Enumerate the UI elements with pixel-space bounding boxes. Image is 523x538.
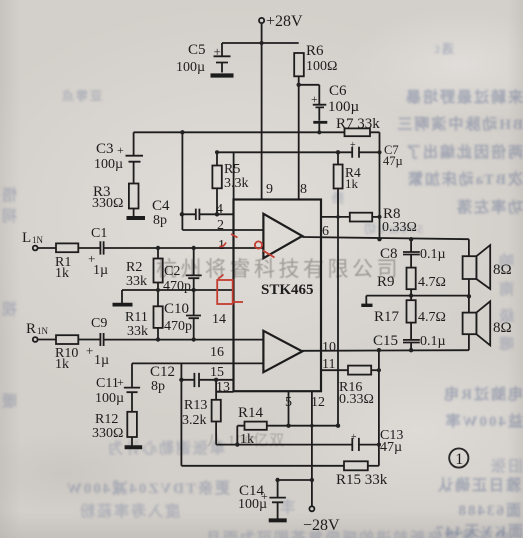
- svg-text:16: 16: [210, 345, 224, 360]
- svg-text:9: 9: [266, 182, 273, 197]
- svg-text:1k: 1k: [55, 357, 69, 372]
- svg-text:100Ω: 100Ω: [306, 59, 337, 74]
- svg-text:0.1µ: 0.1µ: [420, 334, 446, 349]
- svg-text:3.2k: 3.2k: [182, 413, 207, 428]
- svg-text:1: 1: [455, 451, 463, 468]
- svg-text:+: +: [311, 92, 318, 106]
- svg-text:100µ: 100µ: [95, 391, 124, 406]
- svg-text:C4: C4: [152, 198, 170, 214]
- svg-text:STK465: STK465: [261, 282, 314, 298]
- svg-text:C15: C15: [373, 333, 398, 349]
- svg-text:4: 4: [216, 202, 223, 217]
- svg-text:1k: 1k: [345, 176, 359, 191]
- svg-text:C10: C10: [164, 301, 189, 317]
- svg-text:C11: C11: [96, 376, 119, 391]
- svg-text:47µ: 47µ: [380, 440, 402, 455]
- svg-text:10: 10: [322, 340, 336, 355]
- svg-text:+: +: [351, 432, 357, 443]
- svg-text:5: 5: [285, 395, 292, 410]
- svg-text:15: 15: [210, 365, 224, 380]
- svg-text:+: +: [261, 489, 268, 503]
- svg-text:R7 33k: R7 33k: [336, 116, 380, 132]
- svg-text:1µ: 1µ: [94, 353, 109, 368]
- svg-text:470p: 470p: [164, 319, 192, 334]
- svg-text:13: 13: [216, 380, 230, 395]
- svg-text:6: 6: [322, 224, 329, 239]
- svg-text:R11: R11: [125, 310, 148, 325]
- svg-text:R12: R12: [95, 412, 118, 427]
- svg-text:0.33Ω: 0.33Ω: [382, 220, 417, 235]
- svg-text:330Ω: 330Ω: [92, 426, 123, 441]
- svg-text:8p: 8p: [151, 379, 165, 394]
- svg-text:1N: 1N: [32, 235, 44, 245]
- svg-text:14: 14: [212, 312, 226, 327]
- svg-text:R9: R9: [377, 274, 395, 290]
- svg-text:+: +: [117, 143, 124, 157]
- svg-text:+: +: [86, 343, 93, 358]
- svg-text:8: 8: [300, 182, 307, 197]
- svg-text:+28V: +28V: [266, 13, 303, 30]
- svg-text:L: L: [22, 230, 31, 246]
- svg-text:8Ω: 8Ω: [493, 262, 512, 278]
- svg-text:100µ: 100µ: [328, 99, 360, 115]
- svg-text:1k: 1k: [240, 432, 254, 447]
- svg-text:C5: C5: [188, 42, 206, 58]
- svg-text:C12: C12: [150, 364, 175, 380]
- svg-text:3.3k: 3.3k: [224, 176, 249, 191]
- svg-text:8Ω: 8Ω: [493, 320, 512, 336]
- svg-text:100µ: 100µ: [176, 60, 205, 75]
- svg-text:2: 2: [217, 218, 224, 233]
- svg-text:4.7Ω: 4.7Ω: [418, 310, 446, 325]
- svg-text:R2: R2: [126, 260, 142, 275]
- svg-text:47µ: 47µ: [383, 154, 403, 168]
- svg-text:R13: R13: [184, 398, 207, 413]
- svg-text:+: +: [350, 140, 356, 151]
- svg-text:0.1µ: 0.1µ: [420, 247, 446, 262]
- svg-text:330Ω: 330Ω: [92, 196, 123, 211]
- svg-text:R: R: [26, 321, 36, 337]
- svg-text:1N: 1N: [37, 326, 49, 336]
- svg-text:C3: C3: [96, 141, 114, 157]
- svg-text:C6: C6: [329, 83, 347, 99]
- svg-text:C8: C8: [380, 246, 398, 262]
- svg-text:R14: R14: [238, 405, 264, 421]
- svg-text:−28V: −28V: [303, 517, 340, 534]
- svg-text:8p: 8p: [153, 213, 167, 228]
- svg-text:11: 11: [322, 357, 335, 372]
- svg-text:4.7Ω: 4.7Ω: [418, 275, 446, 290]
- svg-text:R17: R17: [374, 309, 400, 325]
- svg-text:C2: C2: [164, 264, 180, 279]
- svg-text:1k: 1k: [55, 266, 69, 281]
- svg-text:C9: C9: [91, 316, 107, 331]
- svg-text:R5: R5: [224, 162, 240, 177]
- svg-text:R15 33k: R15 33k: [336, 472, 388, 488]
- svg-text:+: +: [214, 44, 221, 59]
- svg-text:12: 12: [311, 395, 325, 410]
- svg-text:1µ: 1µ: [93, 263, 108, 278]
- svg-text:R6: R6: [306, 43, 324, 59]
- svg-text:33k: 33k: [127, 324, 148, 339]
- svg-text:0.33Ω: 0.33Ω: [339, 392, 374, 407]
- svg-text:470p: 470p: [163, 279, 191, 294]
- svg-text:100µ: 100µ: [94, 157, 123, 172]
- svg-text:C1: C1: [91, 226, 107, 241]
- svg-text:33k: 33k: [126, 274, 147, 289]
- svg-text:+: +: [117, 375, 124, 389]
